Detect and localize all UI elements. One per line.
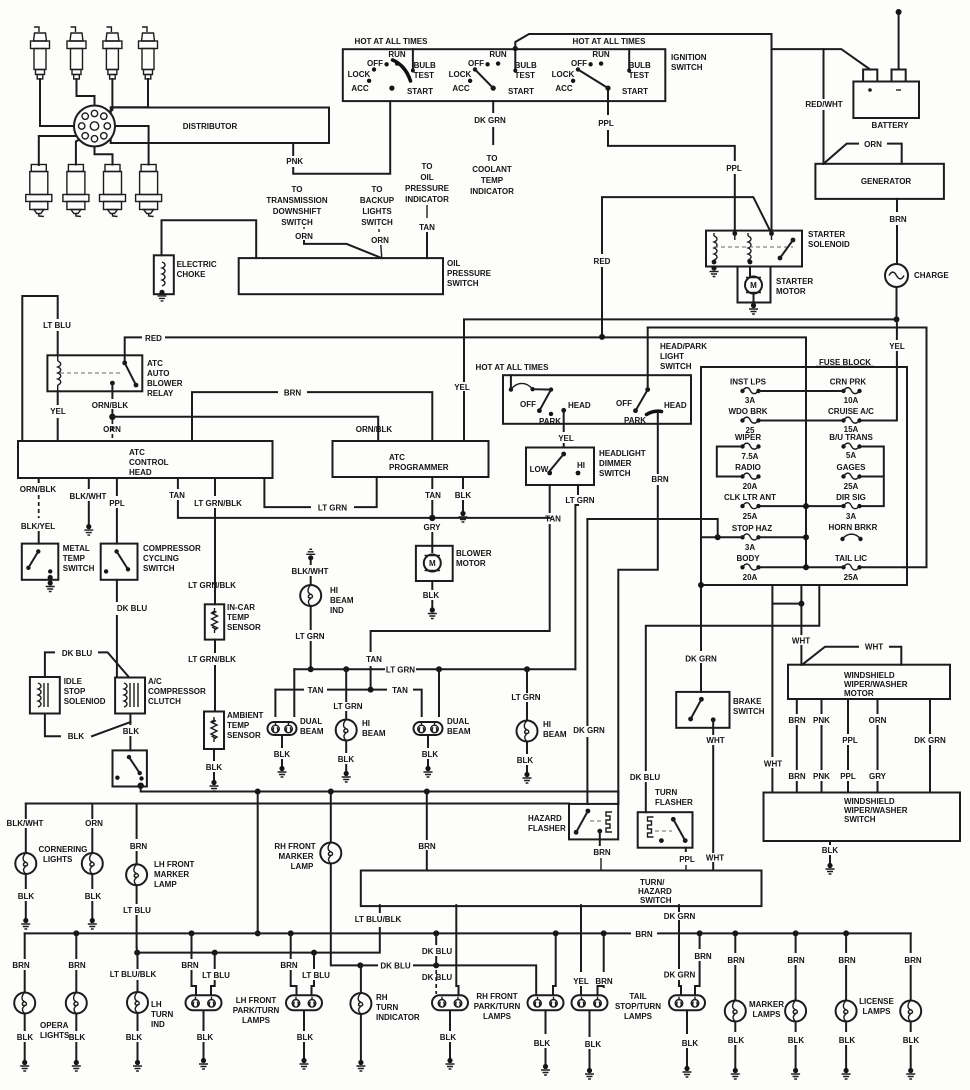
svg-text:IDLE: IDLE bbox=[64, 677, 83, 686]
wire ORN R2 to cornering 2 bbox=[91, 804, 93, 819]
svg-text:START: START bbox=[622, 87, 648, 96]
rail R3 BRN bbox=[25, 932, 911, 934]
svg-text:HI: HI bbox=[362, 719, 370, 728]
wire BLK blower to ground bbox=[431, 581, 433, 589]
svg-text:LOW: LOW bbox=[530, 465, 549, 474]
wire LT GRN dimmer hi to rail bbox=[575, 485, 578, 669]
svg-text:MARKER: MARKER bbox=[154, 870, 189, 879]
svg-text:STARTER: STARTER bbox=[776, 277, 813, 286]
svg-text:BLK/YEL: BLK/YEL bbox=[21, 522, 55, 531]
wire BRN R3 to opera 1 bbox=[24, 933, 26, 958]
rail C RED from relay to fuse block bbox=[125, 337, 806, 567]
wire TAN programmer to junction bbox=[431, 477, 433, 488]
marker lamp 1 bbox=[725, 1001, 746, 1022]
wire clk ltr ant to dir sig bbox=[759, 505, 844, 507]
LH front park/turn lamp 2 bbox=[286, 995, 322, 1010]
svg-text:TAIL LIC: TAIL LIC bbox=[835, 554, 867, 563]
svg-text:DUAL: DUAL bbox=[447, 717, 469, 726]
svg-text:RUN: RUN bbox=[489, 50, 507, 59]
svg-text:BLK: BLK bbox=[206, 763, 223, 772]
fuse STOP HAZ 3A bbox=[732, 524, 772, 552]
svg-text:SOLENOID: SOLENOID bbox=[808, 240, 850, 249]
wire BRN R3 to LH park/turn 2 bbox=[290, 933, 292, 958]
svg-text:STOP HAZ: STOP HAZ bbox=[732, 524, 772, 533]
svg-text:ATC: ATC bbox=[129, 448, 145, 457]
svg-text:WHT: WHT bbox=[706, 736, 724, 745]
spark plug 8 bbox=[136, 165, 162, 217]
svg-text:TURN: TURN bbox=[151, 1010, 173, 1019]
svg-text:BRN: BRN bbox=[727, 956, 745, 965]
svg-text:LT GRN: LT GRN bbox=[318, 504, 347, 513]
svg-text:ELECTRIC: ELECTRIC bbox=[177, 260, 217, 269]
svg-text:LIGHTS: LIGHTS bbox=[40, 1031, 70, 1040]
svg-text:TO: TO bbox=[292, 185, 303, 194]
svg-text:25A: 25A bbox=[844, 482, 859, 491]
svg-text:PARK: PARK bbox=[624, 416, 646, 425]
svg-text:RH FRONT: RH FRONT bbox=[476, 992, 517, 1001]
svg-text:BLK: BLK bbox=[18, 892, 35, 901]
svg-text:FLASHER: FLASHER bbox=[655, 798, 693, 807]
svg-text:PPL: PPL bbox=[598, 119, 614, 128]
distributor box bbox=[111, 108, 329, 144]
svg-text:BLK: BLK bbox=[85, 892, 102, 901]
svg-text:BRN: BRN bbox=[904, 956, 922, 965]
svg-text:HI: HI bbox=[577, 461, 585, 470]
svg-text:LIGHT: LIGHT bbox=[660, 352, 684, 361]
svg-text:3A: 3A bbox=[745, 396, 755, 405]
wire DK BLU junction row bbox=[360, 964, 436, 966]
svg-text:DUAL: DUAL bbox=[300, 717, 322, 726]
starter solenoid box bbox=[706, 231, 802, 267]
wire BRN R3 to license 1 bbox=[845, 933, 847, 952]
svg-text:DIR SIG: DIR SIG bbox=[836, 493, 866, 502]
svg-text:BRN: BRN bbox=[130, 842, 148, 851]
wire plug7 to cap bbox=[95, 142, 113, 164]
svg-text:HOT AT ALL TIMES: HOT AT ALL TIMES bbox=[355, 37, 429, 46]
RH front marker lamp bbox=[320, 843, 341, 864]
svg-text:RED/WHT: RED/WHT bbox=[805, 100, 842, 109]
svg-text:ORN/BLK: ORN/BLK bbox=[356, 425, 393, 434]
wire DK BLU junction to tail lamp B bbox=[436, 965, 536, 994]
svg-text:TURN/: TURN/ bbox=[640, 878, 665, 887]
svg-text:OIL: OIL bbox=[447, 259, 460, 268]
wire tail lic right to rail B bbox=[860, 566, 904, 568]
svg-text:PNK: PNK bbox=[813, 716, 830, 725]
svg-text:LT GRN/BLK: LT GRN/BLK bbox=[188, 581, 236, 590]
svg-text:BLK: BLK bbox=[422, 750, 439, 759]
svg-text:TEMP: TEMP bbox=[481, 176, 504, 185]
svg-text:LT GRN: LT GRN bbox=[333, 702, 362, 711]
brake switch box bbox=[676, 692, 729, 728]
electric choke bbox=[154, 255, 174, 294]
ign section 3 bbox=[552, 49, 651, 96]
svg-text:INDICATOR: INDICATOR bbox=[405, 195, 449, 204]
svg-text:LIGHTS: LIGHTS bbox=[362, 207, 392, 216]
hi beam lamp 2 bbox=[517, 721, 538, 742]
wire BRN R3 to opera 2 bbox=[75, 933, 77, 958]
svg-text:TAN: TAN bbox=[545, 515, 561, 524]
tail stop/turn lamp D bbox=[669, 995, 705, 1010]
svg-text:RELAY: RELAY bbox=[147, 389, 174, 398]
svg-text:SWITCH: SWITCH bbox=[660, 362, 692, 371]
svg-text:BLK: BLK bbox=[17, 1033, 34, 1042]
b/u trans - gages - dir sig right loop bbox=[860, 447, 884, 507]
wire TAN control head right bbox=[177, 478, 179, 488]
svg-text:LOCK: LOCK bbox=[449, 70, 472, 79]
wire R1 to hazard flasher corner bbox=[617, 792, 619, 804]
svg-text:LH: LH bbox=[151, 1000, 162, 1009]
svg-text:LT GRN: LT GRN bbox=[295, 632, 324, 641]
wire PPL turn flasher to switch bbox=[685, 848, 687, 851]
svg-text:YEL: YEL bbox=[50, 407, 66, 416]
atc programmer box bbox=[333, 441, 489, 477]
svg-text:TAIL: TAIL bbox=[629, 992, 646, 1001]
license lamp 1 bbox=[836, 1001, 857, 1022]
svg-text:WINDSHIELD: WINDSHIELD bbox=[844, 797, 895, 806]
wire stop haz left to brake feed + hazard feed bbox=[701, 536, 742, 538]
svg-text:ACC: ACC bbox=[452, 84, 470, 93]
svg-text:TAN: TAN bbox=[392, 686, 408, 695]
svg-text:YEL: YEL bbox=[558, 434, 574, 443]
svg-text:BRN: BRN bbox=[593, 848, 611, 857]
solenoid coils bbox=[714, 236, 717, 260]
svg-text:LT GRN: LT GRN bbox=[511, 693, 540, 702]
svg-text:M: M bbox=[429, 559, 436, 568]
svg-text:BRN: BRN bbox=[635, 930, 653, 939]
LH front marker lamp bbox=[126, 864, 147, 885]
svg-text:LOCK: LOCK bbox=[552, 70, 575, 79]
spark plug 5 (bottom row) bbox=[26, 165, 52, 217]
LH turn indicator lamp bbox=[127, 992, 148, 1013]
svg-text:10A: 10A bbox=[844, 396, 859, 405]
starter motor bbox=[738, 267, 771, 303]
LT GRN lamp rail bbox=[294, 668, 575, 670]
svg-text:SWITCH: SWITCH bbox=[447, 279, 479, 288]
battery bbox=[853, 82, 919, 119]
svg-text:HEAD/PARK: HEAD/PARK bbox=[660, 342, 707, 351]
svg-text:LT BLU/BLK: LT BLU/BLK bbox=[110, 970, 157, 979]
svg-text:OIL: OIL bbox=[420, 173, 433, 182]
svg-text:M: M bbox=[750, 281, 757, 290]
spark plug 2 bbox=[67, 27, 86, 79]
svg-text:SWITCH: SWITCH bbox=[281, 218, 313, 227]
wire BRN R3 to LH park/turn 1 bbox=[191, 933, 193, 958]
wire BLK dual1 ground bbox=[281, 735, 283, 747]
svg-text:OFF: OFF bbox=[571, 59, 587, 68]
oil pressure switch box bbox=[239, 258, 443, 294]
svg-text:DOWNSHIFT: DOWNSHIFT bbox=[273, 207, 322, 216]
wire LT GRN/BLK control head to in-car sensor bbox=[214, 478, 216, 495]
svg-text:BLK: BLK bbox=[517, 756, 534, 765]
turn/hazard switch box bbox=[361, 871, 762, 907]
svg-text:YEL: YEL bbox=[889, 342, 905, 351]
ambient temp sensor bbox=[204, 712, 224, 750]
svg-text:WIPER: WIPER bbox=[735, 433, 761, 442]
compressor cycling switch box bbox=[101, 544, 138, 580]
svg-text:RADIO: RADIO bbox=[735, 463, 761, 472]
wire long drop R1 to R3 bbox=[257, 792, 259, 934]
wire BLK/WHT control head to ground bbox=[88, 478, 90, 488]
LH front park/turn lamp 1 bbox=[186, 995, 222, 1010]
spark plug 4 bbox=[139, 27, 158, 79]
wire ORN to oil pressure switch bbox=[304, 241, 382, 258]
in-car temp sensor bbox=[205, 604, 224, 639]
svg-text:SOLENIOD: SOLENIOD bbox=[64, 697, 106, 706]
wire LT GRN link head to programmer bbox=[264, 477, 376, 507]
svg-text:TAN: TAN bbox=[366, 655, 382, 664]
svg-text:BLK: BLK bbox=[682, 1039, 699, 1048]
svg-text:WHT: WHT bbox=[865, 643, 883, 652]
svg-text:DK BLU: DK BLU bbox=[380, 962, 410, 971]
wire plug8 to cap bbox=[111, 126, 149, 165]
RH front park/turn lamp bbox=[432, 995, 468, 1010]
svg-text:SWITCH: SWITCH bbox=[844, 815, 876, 824]
svg-text:BEAM: BEAM bbox=[300, 727, 324, 736]
svg-text:IND: IND bbox=[330, 606, 344, 615]
wire YEL rail A to ATC programmer bbox=[463, 319, 465, 441]
svg-text:BRN: BRN bbox=[284, 389, 302, 398]
svg-text:ORN: ORN bbox=[869, 716, 887, 725]
svg-text:OFF: OFF bbox=[616, 399, 632, 408]
svg-text:DK BLU: DK BLU bbox=[117, 604, 147, 613]
wire sensor to ambient sensor bbox=[214, 640, 216, 652]
svg-text:SWITCH: SWITCH bbox=[143, 564, 175, 573]
svg-text:GENERATOR: GENERATOR bbox=[861, 177, 912, 186]
wire BRN R1 to turn/hazard box bbox=[426, 792, 428, 871]
svg-text:3A: 3A bbox=[846, 512, 856, 521]
fuse WIPER 7.5A bbox=[735, 433, 761, 461]
svg-text:CYCLING: CYCLING bbox=[143, 554, 179, 563]
atc auto blower relay box bbox=[47, 355, 142, 391]
svg-text:LT GRN/BLK: LT GRN/BLK bbox=[194, 499, 242, 508]
wire TAN dimmer low to lamps bbox=[371, 485, 550, 690]
svg-text:WHT: WHT bbox=[764, 760, 782, 769]
svg-text:COMPRESSOR: COMPRESSOR bbox=[143, 544, 201, 553]
solenoid ground bbox=[710, 265, 719, 276]
wire RH marker down to DK BLU junction bbox=[331, 864, 361, 966]
wire LT BLU R2' to LH park/turn 1 bbox=[214, 953, 216, 968]
svg-text:20A: 20A bbox=[743, 482, 758, 491]
svg-text:ORN/BLK: ORN/BLK bbox=[92, 401, 129, 410]
wire BLK clutch down to switch bbox=[129, 714, 131, 725]
svg-text:HOT AT ALL TIMES: HOT AT ALL TIMES bbox=[476, 363, 550, 372]
svg-text:BLK: BLK bbox=[455, 491, 472, 500]
svg-text:BRN: BRN bbox=[418, 842, 436, 851]
wire BRN R3 to tail B bbox=[553, 933, 556, 994]
wire plug1 to cap bbox=[40, 79, 79, 126]
wire LT BLU marker to LH turn ind bbox=[136, 885, 138, 903]
svg-text:B/U TRANS: B/U TRANS bbox=[829, 433, 873, 442]
svg-text:PPL: PPL bbox=[842, 736, 858, 745]
wire LT GRN ind to rail bbox=[310, 606, 312, 629]
rail R2' LT BLU/BLK bbox=[137, 905, 380, 953]
ign section 2 bbox=[449, 46, 537, 96]
wire ORN/BLK junction to programmer bbox=[112, 417, 378, 441]
spark plug 3 bbox=[103, 27, 122, 79]
wire DK GRN stop haz to hazard flasher bbox=[586, 519, 588, 804]
svg-text:LT BLU/BLK: LT BLU/BLK bbox=[355, 915, 402, 924]
metal temp switch box bbox=[22, 544, 59, 580]
head/park section 1 bbox=[509, 375, 591, 426]
svg-text:BRN: BRN bbox=[68, 961, 86, 970]
svg-text:PNK: PNK bbox=[286, 157, 303, 166]
svg-text:BLK/WHT: BLK/WHT bbox=[292, 567, 329, 576]
svg-text:WIPER/WASHER: WIPER/WASHER bbox=[844, 680, 908, 689]
svg-text:TAN: TAN bbox=[419, 223, 435, 232]
svg-text:25A: 25A bbox=[743, 512, 758, 521]
svg-text:CHOKE: CHOKE bbox=[177, 270, 207, 279]
svg-text:BLK: BLK bbox=[197, 1033, 214, 1042]
wire ORN/BLK relay to junction bbox=[111, 383, 113, 398]
svg-text:RUN: RUN bbox=[592, 50, 610, 59]
wire BRN head/park PARK down bbox=[618, 414, 658, 804]
svg-text:STOP: STOP bbox=[64, 687, 86, 696]
opera lamp 1 bbox=[14, 993, 35, 1014]
svg-text:LAMPS: LAMPS bbox=[753, 1010, 782, 1019]
dual beam lamp 2 bbox=[414, 722, 443, 735]
svg-text:HEAD: HEAD bbox=[568, 401, 591, 410]
wire RED/WHT down to generator bbox=[823, 111, 825, 164]
fuse BODY 20A bbox=[736, 554, 760, 582]
wire YEL charge junction down to cruise fuse bbox=[859, 319, 897, 420]
svg-text:AUTO: AUTO bbox=[147, 369, 170, 378]
wire DK BLU fuse to turn flasher bbox=[646, 585, 820, 812]
svg-text:TEMP: TEMP bbox=[227, 721, 250, 730]
svg-text:BLK: BLK bbox=[123, 727, 140, 736]
svg-text:HOT AT ALL TIMES: HOT AT ALL TIMES bbox=[573, 37, 647, 46]
wire rail to hi beam 2 bbox=[526, 669, 528, 720]
rail A YEL bbox=[464, 318, 897, 320]
svg-text:7.5A: 7.5A bbox=[742, 452, 759, 461]
svg-text:ATC: ATC bbox=[389, 453, 405, 462]
hazard flasher box bbox=[569, 804, 618, 840]
wire DK GRN fuse to brake switch bbox=[700, 585, 702, 692]
turn flasher box bbox=[638, 812, 693, 848]
svg-text:BRN: BRN bbox=[838, 956, 856, 965]
svg-text:TEST: TEST bbox=[629, 71, 650, 80]
wire choke to oil pressure switch bbox=[162, 220, 257, 258]
svg-text:PARK/TURN: PARK/TURN bbox=[233, 1006, 280, 1015]
svg-text:BRN: BRN bbox=[694, 952, 712, 961]
svg-text:PARK/TURN: PARK/TURN bbox=[474, 1002, 521, 1011]
svg-text:BLK: BLK bbox=[423, 591, 440, 600]
svg-text:BLK: BLK bbox=[728, 1036, 745, 1045]
svg-text:20A: 20A bbox=[743, 573, 758, 582]
svg-text:BLOWER: BLOWER bbox=[147, 379, 183, 388]
svg-text:HEADLIGHT: HEADLIGHT bbox=[599, 449, 646, 458]
svg-text:BULB: BULB bbox=[629, 61, 651, 70]
svg-text:SWITCH: SWITCH bbox=[599, 469, 631, 478]
svg-text:DK GRN: DK GRN bbox=[573, 726, 605, 735]
svg-text:BLK: BLK bbox=[585, 1040, 602, 1049]
wire BRN R2 to LH front marker bbox=[136, 804, 138, 839]
ign section 1 bbox=[348, 49, 436, 96]
wire plug5 to cap bbox=[39, 136, 82, 165]
svg-text:COMPRESSOR: COMPRESSOR bbox=[148, 687, 206, 696]
wire DK BLU cycling to clutch bbox=[116, 580, 118, 601]
svg-text:LT BLU: LT BLU bbox=[302, 971, 330, 980]
wire BRN R3 corner to license 2 bbox=[910, 933, 912, 952]
svg-text:DK BLU: DK BLU bbox=[630, 773, 660, 782]
wire ORN/BLK control head down bbox=[38, 478, 40, 482]
svg-text:BLK: BLK bbox=[69, 1033, 86, 1042]
svg-text:IN-CAR: IN-CAR bbox=[227, 603, 255, 612]
svg-text:STOP/TURN: STOP/TURN bbox=[615, 1002, 661, 1011]
svg-text:TURN: TURN bbox=[655, 788, 677, 797]
svg-text:INDICATOR: INDICATOR bbox=[470, 187, 514, 196]
wire LT BLU R2' to LH park/turn 2 bbox=[313, 953, 315, 968]
svg-text:WHT: WHT bbox=[706, 854, 724, 863]
svg-text:BRN: BRN bbox=[889, 215, 907, 224]
svg-text:BLK: BLK bbox=[839, 1036, 856, 1045]
svg-text:WINDSHIELD: WINDSHIELD bbox=[844, 671, 895, 680]
head/park section 2 bbox=[616, 387, 687, 425]
svg-text:BEAM: BEAM bbox=[447, 727, 471, 736]
svg-text:CONTROL: CONTROL bbox=[129, 458, 169, 467]
svg-text:BRN: BRN bbox=[651, 475, 669, 484]
svg-text:BRN: BRN bbox=[181, 961, 199, 970]
svg-text:BLK/WHT: BLK/WHT bbox=[70, 492, 107, 501]
svg-text:BEAM: BEAM bbox=[362, 729, 386, 738]
atc control head box bbox=[18, 441, 273, 478]
svg-text:PPL: PPL bbox=[679, 855, 695, 864]
svg-text:ORN/BLK: ORN/BLK bbox=[20, 485, 57, 494]
svg-text:BLK: BLK bbox=[534, 1039, 551, 1048]
wire to RH park/turn right bulb bbox=[456, 905, 458, 994]
svg-text:SWITCH: SWITCH bbox=[640, 896, 672, 905]
svg-text:START: START bbox=[508, 87, 534, 96]
svg-text:STARTER: STARTER bbox=[808, 230, 845, 239]
svg-text:SENSOR: SENSOR bbox=[227, 623, 261, 632]
cap terminals bbox=[91, 110, 97, 116]
svg-text:DK GRN: DK GRN bbox=[664, 912, 696, 921]
svg-text:LH FRONT: LH FRONT bbox=[154, 860, 195, 869]
fuse GAGES 25A bbox=[837, 463, 867, 491]
svg-text:LT BLU: LT BLU bbox=[123, 906, 151, 915]
wire inst lps to crn prk bbox=[759, 390, 844, 392]
svg-text:BODY: BODY bbox=[736, 554, 760, 563]
spark plug 6 bbox=[63, 165, 89, 217]
fuse CLK LTR ANT 25A bbox=[724, 493, 776, 521]
wire DK GRN to coolant temp indicator bbox=[492, 101, 494, 112]
svg-text:PPL: PPL bbox=[726, 164, 742, 173]
fuse CRN PRK 10A bbox=[830, 378, 867, 406]
svg-text:DK BLU: DK BLU bbox=[422, 947, 452, 956]
svg-text:PRESSURE: PRESSURE bbox=[447, 269, 492, 278]
svg-text:LT BLU: LT BLU bbox=[202, 971, 230, 980]
svg-text:GAGES: GAGES bbox=[837, 463, 867, 472]
svg-text:PROGRAMMER: PROGRAMMER bbox=[389, 463, 449, 472]
tail stop/turn lamp C bbox=[572, 995, 608, 1010]
svg-text:BRN: BRN bbox=[787, 956, 805, 965]
svg-text:TO: TO bbox=[487, 154, 498, 163]
svg-text:AMBIENT: AMBIENT bbox=[227, 711, 264, 720]
fuse CRUISE A/C 15A bbox=[828, 407, 874, 434]
svg-text:BEAM: BEAM bbox=[330, 596, 354, 605]
svg-text:BRN: BRN bbox=[595, 977, 613, 986]
wire charge down to rail A bbox=[896, 287, 898, 319]
wire BRN control head to programmer bbox=[192, 392, 432, 441]
svg-text:CHARGE: CHARGE bbox=[914, 271, 949, 280]
fuse RADIO 20A bbox=[735, 463, 761, 491]
svg-text:A/C: A/C bbox=[148, 677, 162, 686]
svg-text:YEL: YEL bbox=[573, 977, 589, 986]
svg-text:LAMPS: LAMPS bbox=[624, 1012, 653, 1021]
svg-text:ACC: ACC bbox=[555, 84, 573, 93]
svg-text:PRESSURE: PRESSURE bbox=[405, 184, 450, 193]
svg-text:ORN: ORN bbox=[103, 425, 121, 434]
svg-text:BLK: BLK bbox=[297, 1033, 314, 1042]
